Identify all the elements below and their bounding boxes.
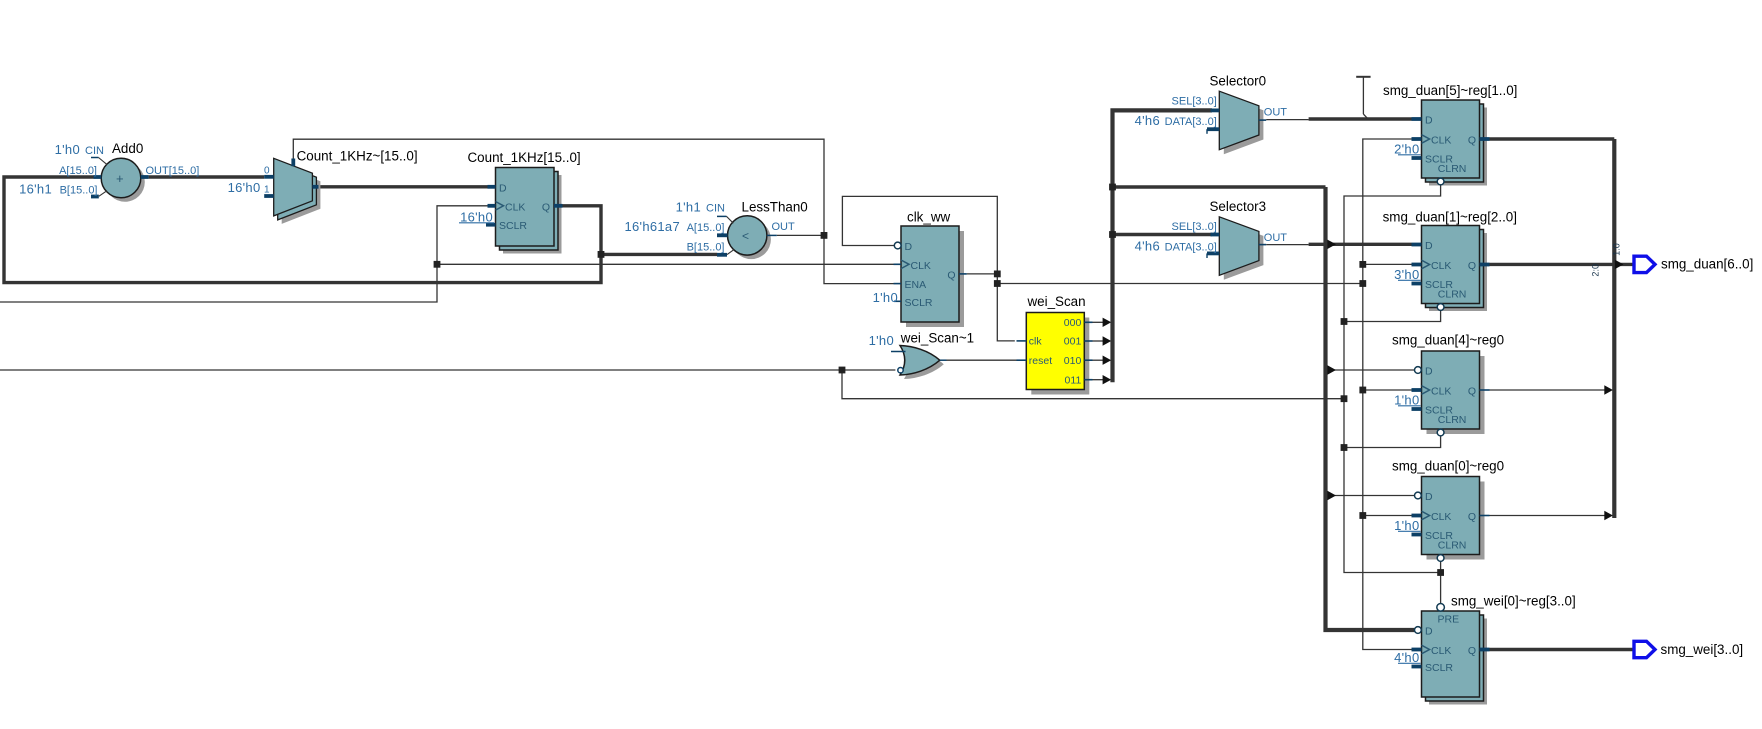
wire clock input net (left, thin): [0, 206, 488, 302]
svg-text:Q: Q: [1468, 511, 1476, 523]
node reset junction: [839, 367, 846, 374]
wire reset input net (left, thin): [0, 370, 1344, 399]
wire clock tap reg1 CLK: [1363, 263, 1412, 265]
svg-text:DATA[3..0]: DATA[3..0]: [1165, 241, 1217, 253]
wire Selector3 OUT to smg_duan[1] reg D: [1266, 244, 1308, 246]
svg-text:DATA[3..0]: DATA[3..0]: [1165, 116, 1217, 128]
wire wei_Scan~1 output to wei_Scan reset: [947, 359, 1017, 361]
svg-text:2:0: 2:0: [1591, 264, 1601, 277]
svg-text:CLRN: CLRN: [1438, 540, 1467, 552]
svg-text:CLK: CLK: [505, 201, 525, 213]
svg-text:CLK: CLK: [1431, 135, 1451, 147]
node bus1 SEL3 junction: [1109, 231, 1116, 238]
wire reg0 Q into bus: [1490, 515, 1606, 517]
svg-text:smg_wei[0]~reg[3..0]: smg_wei[0]~reg[3..0]: [1451, 594, 1576, 609]
svg-text:PRE: PRE: [1438, 614, 1460, 626]
svg-text:1: 1: [264, 184, 270, 195]
node clock feed junction: [1359, 280, 1366, 287]
svg-text:D: D: [1425, 115, 1433, 127]
wire B[15..0] branch to LessThan0: [601, 253, 717, 256]
svg-text:CIN: CIN: [85, 145, 104, 157]
register smg_duan[4]~reg0: [1392, 333, 1504, 436]
svg-text:1:0: 1:0: [1611, 243, 1621, 256]
wire CLRN chain vertical: [1344, 185, 1441, 573]
wire clock branch to clk_ww CLK: [437, 263, 894, 265]
svg-text:OUT: OUT: [772, 221, 796, 233]
svg-text:wei_Scan: wei_Scan: [1027, 294, 1086, 309]
svg-text:reset: reset: [1029, 355, 1052, 367]
adder Add0: [19, 141, 199, 202]
svg-text:Add0: Add0: [112, 141, 143, 156]
wire reset branch to wei_Scan~1 inverted input: [842, 369, 895, 371]
svg-text:wei_Scan~1: wei_Scan~1: [900, 331, 974, 346]
svg-text:Q: Q: [1468, 645, 1476, 657]
wire bus to output port smg_duan: [1614, 263, 1633, 266]
svg-text:0: 0: [264, 165, 270, 176]
svg-text:A[15..0]: A[15..0]: [59, 165, 97, 177]
wire clk_ww Q to loop: [967, 273, 998, 275]
bus2 exit arrow to reg1 D: [1327, 240, 1336, 249]
node reset-to-CLRN junction: [1341, 395, 1348, 402]
svg-text:CLK: CLK: [1431, 645, 1451, 657]
svg-text:CLRN: CLRN: [1438, 414, 1467, 426]
svg-text:011: 011: [1065, 374, 1082, 386]
svg-text:4'h6: 4'h6: [1135, 238, 1160, 253]
svg-text:CLK: CLK: [1431, 511, 1451, 523]
svg-text:000: 000: [1064, 317, 1082, 329]
svg-text:1'h0: 1'h0: [55, 142, 80, 157]
node clk_ww Q junction: [994, 271, 1001, 278]
register Count_1KHz[15..0]: [459, 150, 581, 254]
svg-text:OUT: OUT: [1264, 232, 1288, 244]
svg-text:Q: Q: [542, 201, 550, 213]
svg-text:smg_duan[6..0]: smg_duan[6..0]: [1661, 257, 1753, 272]
mux Selector0: [1135, 73, 1288, 154]
svg-text:16'h61a7: 16'h61a7: [625, 219, 681, 234]
wire reg1 Q to output bus: [1490, 263, 1615, 266]
svg-text:CLK: CLK: [1431, 260, 1451, 272]
wire mux output to Count_1KHz D: [318, 185, 487, 188]
svg-text:1'h0: 1'h0: [869, 333, 894, 348]
wire smg_wei Q to output port: [1490, 648, 1634, 651]
svg-text:SCLR: SCLR: [1425, 662, 1453, 674]
wire CLRN tap reg4: [1344, 436, 1441, 448]
register smg_duan[0]~reg0: [1392, 459, 1504, 562]
register clk_ww: [873, 210, 967, 328]
register smg_duan[1]~reg[2..0]: [1383, 209, 1517, 311]
svg-text:010: 010: [1064, 355, 1082, 367]
bus smg_duan output bus vertical: [1612, 139, 1616, 518]
wire Add0 OUT[15..0] to mux input 0: [149, 175, 265, 178]
wire CLRN tap reg1: [1344, 310, 1441, 321]
svg-text:SCLR: SCLR: [499, 220, 527, 232]
svg-text:OUT: OUT: [1264, 107, 1288, 119]
wire LessThan0 OUT stub run: [777, 234, 824, 236]
svg-text:smg_duan[5]~reg[1..0]: smg_duan[5]~reg[1..0]: [1383, 83, 1517, 98]
svg-text:OUT[15..0]: OUT[15..0]: [146, 165, 200, 177]
wire clock tap reg4 CLK: [1363, 389, 1412, 391]
node B branch junction: [598, 251, 605, 258]
wire reg4 Q into bus: [1490, 389, 1606, 391]
svg-text:Count_1KHz~[15..0]: Count_1KHz~[15..0]: [297, 149, 418, 164]
bus2 vertical data bus to register D inputs: [1326, 187, 1415, 630]
svg-text:Count_1KHz[15..0]: Count_1KHz[15..0]: [468, 150, 581, 165]
node clock junction: [434, 261, 441, 268]
svg-text:smg_wei[3..0]: smg_wei[3..0]: [1661, 642, 1744, 657]
arrow into port smg_duan: [1615, 260, 1624, 269]
svg-text:D: D: [499, 182, 507, 194]
register smg_duan[5]~reg[1..0]: [1383, 83, 1517, 186]
svg-text:smg_duan[4]~reg0: smg_duan[4]~reg0: [1392, 333, 1504, 348]
svg-text:16'h1: 16'h1: [19, 182, 52, 197]
svg-text:D: D: [1425, 366, 1433, 378]
svg-text:Q: Q: [1468, 386, 1476, 398]
svg-text:clk_ww: clk_ww: [907, 210, 950, 225]
svg-text:Selector3: Selector3: [1210, 199, 1267, 214]
node generated clock junction: [994, 280, 1001, 287]
OR gate wei_Scan~1: [869, 331, 975, 380]
svg-text:ENA: ENA: [905, 279, 927, 291]
svg-text:CLRN: CLRN: [1438, 163, 1467, 175]
register smg_wei[0]~reg[3..0]: [1394, 594, 1576, 705]
bus branch to Selector3 SEL: [1113, 233, 1213, 236]
output port smg_duan[6..0]: [1634, 256, 1655, 272]
comparator LessThan0: [625, 199, 808, 259]
svg-text:CLK: CLK: [911, 260, 931, 272]
svg-text:Q: Q: [947, 269, 955, 281]
svg-text:+: +: [116, 171, 124, 186]
svg-text:16'h0: 16'h0: [228, 180, 261, 195]
svg-text:Q: Q: [1468, 135, 1476, 147]
svg-text:4'h6: 4'h6: [1135, 113, 1160, 128]
svg-text:D: D: [1425, 491, 1433, 503]
svg-text:Q: Q: [1468, 260, 1476, 272]
wire register clock column: [1363, 139, 1412, 650]
svg-text:SEL[3..0]: SEL[3..0]: [1172, 221, 1217, 233]
mux Selector3: [1135, 199, 1288, 280]
svg-text:SEL[3..0]: SEL[3..0]: [1172, 95, 1217, 107]
wire Add0 feedback loop from Count_1KHz Q: [4, 177, 601, 283]
wire reg5 Q to output bus: [1490, 137, 1615, 140]
wire generated clock to register clock column: [997, 283, 1363, 285]
wire clk_ww D feedback loop from Q: [842, 196, 1014, 341]
svg-text:D: D: [1425, 240, 1433, 252]
wire reg0 CLRN and smg_wei PRE link: [1440, 561, 1442, 603]
svg-text:SCLR: SCLR: [905, 297, 933, 309]
svg-text:1'h1: 1'h1: [676, 199, 701, 214]
svg-text:smg_duan[1]~reg[2..0]: smg_duan[1]~reg[2..0]: [1383, 209, 1517, 224]
svg-text:B[15..0]: B[15..0]: [60, 185, 98, 197]
svg-text:CIN: CIN: [706, 202, 725, 214]
node bus1 bus2 junction: [1109, 184, 1116, 191]
svg-text:1'h0: 1'h0: [873, 290, 898, 305]
node LessThan0 OUT junction: [821, 232, 828, 239]
svg-text:CLRN: CLRN: [1438, 289, 1467, 301]
decoder wei_Scan: [1017, 294, 1112, 394]
svg-text:001: 001: [1064, 336, 1082, 348]
svg-text:A[15..0]: A[15..0]: [687, 222, 725, 234]
svg-text:D: D: [1425, 626, 1433, 638]
wire clock tap reg0 CLK: [1363, 515, 1412, 517]
svg-text:LessThan0: LessThan0: [742, 199, 808, 214]
svg-text:B[15..0]: B[15..0]: [687, 242, 725, 254]
bus branch to data bus2: [1113, 185, 1326, 188]
output port smg_wei[3..0]: [1634, 641, 1655, 657]
svg-text:smg_duan[0]~reg0: smg_duan[0]~reg0: [1392, 459, 1504, 474]
wire bus2 to reg0 D: [1331, 495, 1414, 497]
wire Selector0 OUT to smg_duan[5] reg D: [1266, 119, 1308, 121]
tie-off T symbol on reg5 D bus: [1356, 76, 1370, 78]
bus wei_Scan state vertical bus: [1113, 110, 1213, 382]
svg-text:Selector0: Selector0: [1210, 73, 1267, 88]
wire LessThan0 OUT to mux select and clk_ww ENA: [293, 139, 893, 283]
svg-text:clk: clk: [1029, 336, 1043, 348]
svg-text:<: <: [742, 229, 749, 243]
mux Count_1KHz~[15..0]: [228, 149, 418, 224]
svg-text:D: D: [905, 241, 913, 253]
svg-text:CLK: CLK: [1431, 386, 1451, 398]
wire bus2 to reg4 D: [1331, 369, 1414, 371]
